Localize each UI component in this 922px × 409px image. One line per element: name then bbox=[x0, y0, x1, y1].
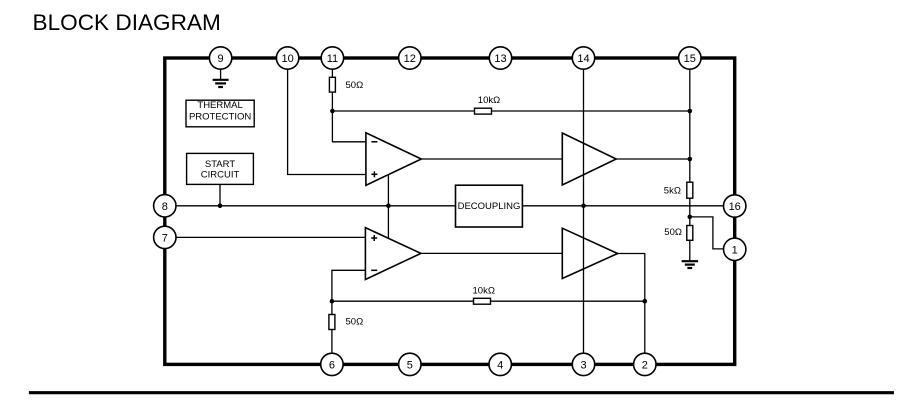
pin 4 bbox=[489, 353, 511, 375]
svg-text:CIRCUIT: CIRCUIT bbox=[201, 170, 240, 181]
svg-text:DECOUPLING: DECOUPLING bbox=[458, 201, 521, 212]
svg-text:7: 7 bbox=[162, 232, 168, 244]
wire pin15 column through 5k and 50ohm to ground bbox=[689, 69, 691, 261]
svg-text:10: 10 bbox=[281, 53, 293, 65]
ground symbol at pin9 bbox=[213, 80, 229, 87]
resistor 10k upper feedback bbox=[475, 108, 492, 114]
svg-text:6: 6 bbox=[329, 359, 335, 371]
thermal protection block bbox=[186, 100, 254, 127]
svg-text:5kΩ: 5kΩ bbox=[664, 186, 681, 197]
resistor 5k bbox=[687, 182, 693, 198]
svg-text:13: 13 bbox=[494, 53, 506, 65]
pin 10 bbox=[276, 47, 298, 69]
wire pin14 column to pin3 bbox=[583, 69, 585, 353]
wire main bias rail pin8 to pin16 bbox=[176, 205, 724, 207]
op-amp A3 plus mark bbox=[371, 235, 377, 241]
resistor 50ohm right bbox=[687, 226, 693, 241]
op-amp A1 minus mark bbox=[371, 141, 377, 143]
pin 14 bbox=[572, 47, 594, 69]
svg-text:50Ω: 50Ω bbox=[346, 80, 364, 91]
wire pin10 to A1 + input bbox=[288, 69, 366, 175]
wire lower feedback net bbox=[332, 300, 645, 302]
op-amp A1 plus mark bbox=[371, 171, 377, 177]
junction pin15 feedback node bbox=[688, 109, 693, 114]
svg-text:14: 14 bbox=[577, 53, 589, 65]
pin 6 bbox=[321, 353, 343, 375]
wire A3 - input branch bbox=[332, 270, 366, 301]
pin 2 bbox=[634, 353, 656, 375]
svg-text:1: 1 bbox=[732, 244, 738, 256]
svg-text:5: 5 bbox=[407, 359, 413, 371]
wire A3 output to A4 input bbox=[421, 252, 562, 254]
pin 1 bbox=[724, 238, 746, 260]
wire bias tap A1/A3 bbox=[387, 175, 389, 238]
svg-text:PROTECTION: PROTECTION bbox=[189, 112, 251, 123]
pin 13 bbox=[489, 47, 511, 69]
svg-text:3: 3 bbox=[580, 359, 586, 371]
pin 12 bbox=[399, 47, 421, 69]
junction bias tap on rail bbox=[386, 204, 391, 209]
pin 9 bbox=[209, 47, 231, 69]
resistor 10k lower feedback bbox=[474, 298, 491, 304]
svg-text:16: 16 bbox=[729, 201, 741, 213]
op-amp A4 (lower output stage) bbox=[562, 228, 617, 278]
pin 7 bbox=[154, 226, 176, 248]
wire start circuit to rail bbox=[219, 184, 221, 205]
svg-text:THERMAL: THERMAL bbox=[197, 100, 242, 111]
op-amp A3 minus mark bbox=[371, 269, 377, 271]
junction lower feedback right node bbox=[643, 299, 648, 304]
op-amp A2 (upper output stage) bbox=[562, 133, 616, 185]
ground symbol below right 50ohm bbox=[682, 261, 699, 268]
pin 16 bbox=[724, 195, 746, 217]
svg-text:50Ω: 50Ω bbox=[664, 227, 682, 238]
resistor 50ohm at pin11 bbox=[329, 77, 335, 92]
svg-text:10kΩ: 10kΩ bbox=[473, 285, 495, 296]
junction pin11 node bbox=[330, 109, 335, 114]
svg-text:2: 2 bbox=[642, 359, 648, 371]
svg-text:8: 8 bbox=[162, 201, 168, 213]
svg-text:10kΩ: 10kΩ bbox=[478, 95, 500, 106]
svg-text:15: 15 bbox=[684, 53, 696, 65]
pin 3 bbox=[572, 353, 594, 375]
svg-text:11: 11 bbox=[327, 53, 338, 65]
decoupling block bbox=[456, 185, 523, 227]
pin 11 bbox=[321, 47, 343, 69]
svg-text:BLOCK DIAGRAM: BLOCK DIAGRAM bbox=[33, 10, 221, 35]
junction lower feedback left node bbox=[330, 299, 335, 304]
svg-text:4: 4 bbox=[497, 359, 503, 371]
junction pin1 node bbox=[688, 215, 693, 220]
wire pin7 to A3 + input bbox=[176, 236, 366, 238]
wire upper feedback net (pin11 node to pin15 node) bbox=[332, 110, 689, 112]
bottom page rule bbox=[29, 391, 894, 394]
pin 8 bbox=[154, 195, 176, 217]
junction A2 output node bbox=[688, 157, 693, 162]
wire pin1 stub bbox=[690, 217, 724, 249]
pin 5 bbox=[399, 353, 421, 375]
resistor 50ohm at pin6 bbox=[329, 315, 335, 330]
svg-text:12: 12 bbox=[404, 53, 416, 65]
junction pin14 column on rail bbox=[581, 204, 586, 209]
wire A4 output down to pin2 bbox=[618, 254, 645, 354]
op-amp A3 (lower input stage) bbox=[365, 228, 421, 280]
wire pin11 through 50ohm to A1 - input bbox=[332, 69, 366, 142]
wire A2 output to pin15 column bbox=[616, 158, 690, 160]
op-amp A1 (upper input stage) bbox=[366, 133, 421, 186]
svg-text:START: START bbox=[205, 159, 235, 170]
pin 15 bbox=[679, 47, 701, 69]
svg-text:50Ω: 50Ω bbox=[346, 316, 364, 327]
start circuit block bbox=[187, 153, 254, 184]
wire A1 output to A2 input bbox=[421, 158, 562, 160]
wire pin9 ground stem bbox=[220, 69, 222, 79]
wire pin6 column through 50ohm bbox=[331, 301, 333, 353]
svg-text:9: 9 bbox=[218, 53, 224, 65]
junction start circuit on rail bbox=[218, 204, 223, 209]
IC boundary frame bbox=[165, 58, 735, 364]
